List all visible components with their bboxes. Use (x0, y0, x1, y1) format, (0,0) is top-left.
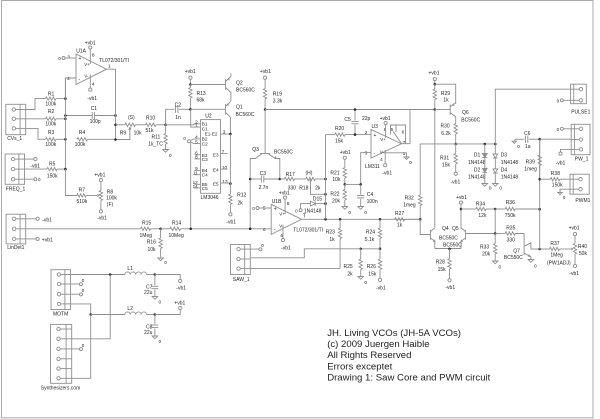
wire U3 pin6 diagonal (393, 132, 401, 144)
node R4-R9 wiper (114, 138, 117, 141)
resistor R26 (379, 249, 381, 259)
connector PULSE1 (571, 84, 587, 104)
svg-text:BC560C: BC560C (236, 88, 255, 94)
wire +vb1 to Q6 emitter (435, 84, 456, 104)
svg-text:-vb1: -vb1 (87, 96, 97, 102)
terminal 0 at FREQ_1 pin3 (25, 178, 34, 180)
svg-text:R1: R1 (48, 91, 55, 97)
wire Q2 base (190, 84, 225, 86)
node C4 top (359, 183, 362, 186)
resistor R10 (146, 123, 157, 126)
ground at R11 (163, 150, 169, 153)
node C1 left (64, 114, 67, 117)
resistor R12 (229, 194, 232, 205)
ground at C8 (152, 336, 158, 339)
svg-text:1k: 1k (443, 98, 449, 104)
node T bus R18 (324, 178, 327, 181)
svg-text:1Meg: 1Meg (550, 252, 563, 258)
ground at R25 (358, 277, 364, 280)
node L1 tap (109, 273, 112, 276)
svg-text:150k: 150k (47, 174, 58, 180)
resistor R39 (539, 139, 541, 155)
svg-text:C3: C3 (202, 157, 208, 162)
wire LinDet1 pin1 to -vb1 (26, 218, 36, 220)
ground at D4 (494, 173, 496, 184)
resistor R27 (395, 218, 405, 221)
power +vb1 at R8 (100, 182, 102, 191)
node R9 left (114, 124, 117, 127)
svg-text:Q1: Q1 (236, 105, 243, 111)
svg-text:V+: V+ (279, 211, 285, 216)
svg-text:750k: 750k (505, 213, 516, 219)
diode D3 1N4148 (494, 144, 496, 154)
power -vb1 at R26 (378, 278, 381, 281)
svg-text:+vb1: +vb1 (185, 69, 196, 75)
svg-text:+vb1: +vb1 (85, 41, 96, 47)
resistor R25 (360, 249, 362, 259)
potentiometer R18 (H) (306, 177, 316, 180)
capacitor C5 (354, 110, 356, 121)
wire R15 to node (151, 228, 161, 230)
resistor R11 (165, 125, 167, 134)
potentiometer R40 50k (560, 248, 571, 250)
svg-text:U1B: U1B (272, 199, 282, 205)
svg-text:C2: C2 (175, 102, 182, 108)
power +vb1 at R29 (433, 77, 436, 80)
svg-text:Drawing 1: Saw Core and PWM ci: Drawing 1: Saw Core and PWM circuit (327, 372, 490, 383)
resistor R37 (540, 248, 550, 250)
node net A C5 (354, 108, 357, 111)
U3 pin1 to ground (383, 153, 407, 157)
connector FREQ_1 (5, 154, 24, 184)
svg-text:R25: R25 (344, 264, 353, 270)
svg-text:1k_TC: 1k_TC (148, 142, 163, 148)
svg-text:6.2k: 6.2k (441, 131, 451, 137)
wire R13 bottom to Q1 base (190, 108, 225, 110)
wire LinDet1 pin2 to R15 (26, 228, 141, 230)
capacitor C2 (166, 109, 175, 125)
wire L2 to C8 node (147, 314, 155, 316)
svg-text:-vb1: -vb1 (42, 217, 52, 223)
wire U1B pin5 (259, 207, 271, 209)
terminal 0 at synth pin3 (72, 348, 80, 350)
wire +vb1 to Q2 base node (189, 79, 191, 84)
node R24 top (379, 218, 382, 221)
svg-text:Q4: Q4 (442, 226, 449, 232)
svg-text:2: 2 (365, 130, 368, 136)
node R23 top (339, 218, 342, 221)
svg-text:50k: 50k (579, 251, 588, 257)
svg-text:SAW_1: SAW_1 (233, 277, 250, 283)
connector SAW_1 (231, 245, 251, 275)
svg-text:R28: R28 (436, 260, 445, 266)
svg-text:-vb1: -vb1 (97, 216, 107, 222)
svg-text:C5: C5 (202, 186, 208, 191)
svg-text:-vb1: -vb1 (281, 246, 291, 252)
wire LinDet1 pin3 to +vb1 (26, 238, 36, 240)
svg-text:1meg: 1meg (524, 166, 537, 172)
svg-text:+vb1: +vb1 (429, 71, 440, 77)
svg-text:R26: R26 (367, 264, 376, 270)
svg-text:R31: R31 (440, 155, 449, 161)
wire R1 to bus (56, 98, 65, 100)
svg-text:1a: 1a (525, 144, 531, 150)
wire pulse out to PULSE1 (495, 89, 570, 144)
svg-text:15k: 15k (442, 162, 451, 168)
terminal 0 at MOTM pin3 (71, 293, 80, 295)
power +vb1 at Q5 collector (459, 201, 462, 204)
svg-text:R29: R29 (441, 91, 450, 97)
op-amp U1A (76, 54, 107, 85)
svg-text:D1: D1 (474, 153, 481, 159)
svg-text:BC550C: BC550C (274, 149, 293, 155)
node bus R5 (64, 168, 67, 171)
svg-text:Q2: Q2 (236, 81, 243, 87)
wire saw level node (361, 248, 380, 250)
svg-text:1N4148: 1N4148 (501, 160, 519, 166)
svg-text:+vb1: +vb1 (380, 116, 391, 122)
power -vb1 at R12 (229, 213, 232, 216)
capacitor C4 (360, 184, 362, 194)
svg-text:D15: D15 (313, 197, 322, 203)
wire R5 to bus (57, 168, 65, 170)
svg-text:R19: R19 (273, 92, 282, 98)
ground at Q7 emitter (528, 260, 534, 263)
node D1 top (484, 143, 487, 146)
U1B V+ to +vb1 (284, 199, 286, 214)
svg-text:-vb1: -vb1 (556, 161, 566, 167)
node emitters R28 (448, 248, 451, 251)
svg-text:100k: 100k (45, 142, 56, 148)
resistor R15 (141, 227, 151, 230)
wire R18 to T bus (315, 178, 325, 180)
terminal 0 at PW_1 pin1 (560, 127, 563, 130)
svg-text:R10: R10 (146, 116, 155, 122)
connector MOTM (51, 270, 71, 310)
wire U2 pin2 B1 from R10 node (166, 124, 201, 125)
potentiometer R9 (S) (125, 123, 135, 126)
svg-text:(PW1ADJ): (PW1ADJ) (547, 260, 571, 266)
resistor R24 (379, 219, 381, 228)
svg-text:R5: R5 (49, 162, 56, 168)
svg-text:0: 0 (563, 195, 566, 200)
node C7 top (154, 273, 157, 276)
node E5 / R12 (229, 182, 232, 185)
connector CVs_1 (6, 104, 26, 134)
diode D2 1N4148 (484, 158, 486, 169)
T bus vertical (325, 135, 327, 220)
wire L2 node to L2 (91, 314, 125, 316)
svg-text:10Meg: 10Meg (169, 233, 185, 239)
svg-text:C5: C5 (344, 117, 351, 123)
terminal 0 at U1B pin5 (256, 207, 259, 210)
wire Q3 left leg to C3 (249, 163, 251, 230)
svg-text:L1: L1 (127, 266, 133, 272)
svg-text:1k: 1k (397, 223, 403, 229)
svg-text:C3: C3 (260, 171, 267, 177)
terminal 0 at MOTM pin2 (71, 283, 80, 285)
svg-text:R3: R3 (48, 130, 55, 136)
node C1 right (114, 114, 117, 117)
resistor R30 (454, 124, 457, 135)
svg-text:R21: R21 (330, 171, 339, 177)
U1B V- to -vb1 (282, 225, 284, 239)
svg-text:100k: 100k (45, 101, 56, 107)
wire PW_1 pin3 to -vb1 (561, 149, 572, 152)
svg-text:4: 4 (380, 157, 383, 163)
node R10-R11-C2-B1 (164, 124, 167, 127)
U3 balance pins 5-6 strap (391, 125, 406, 144)
wire R38 to PWM1 (560, 178, 570, 180)
wire R20 left to T bus (326, 134, 335, 136)
U1A V- pin to -vb1 (89, 75, 91, 89)
svg-text:-vb1: -vb1 (382, 171, 392, 177)
svg-text:(c) 2009 Juergen Haible: (c) 2009 Juergen Haible (327, 339, 429, 350)
wire U1B output T (302, 218, 421, 220)
input bus vertical (64, 78, 66, 169)
svg-text:68k: 68k (197, 98, 206, 104)
svg-text:15k: 15k (368, 272, 377, 278)
svg-text:C4: C4 (202, 173, 208, 178)
connector Synthesizers.com (51, 324, 72, 383)
svg-text:BC550C: BC550C (439, 236, 458, 242)
svg-text:0: 0 (499, 265, 502, 270)
svg-text:R23: R23 (326, 229, 335, 235)
resistor R38 (540, 178, 551, 180)
wire Q3 base vertical (264, 110, 266, 154)
svg-text:D2: D2 (474, 167, 481, 173)
svg-text:1N4148: 1N4148 (468, 160, 486, 166)
svg-text:R40: R40 (578, 244, 587, 250)
wire U3 output pin7 (402, 110, 411, 144)
node R35 left (494, 232, 497, 235)
resistor R19 (264, 79, 266, 88)
wire R14 to U1B pin6 (181, 228, 272, 230)
svg-text:-vb1: -vb1 (569, 271, 579, 277)
U3 V- to -vb1 (384, 150, 386, 164)
svg-text:150k: 150k (552, 182, 563, 188)
wire Q4 base (420, 219, 430, 234)
svg-text:-vb1: -vb1 (376, 286, 386, 292)
svg-text:E4: E4 (213, 168, 219, 173)
svg-text:10k: 10k (148, 247, 157, 253)
svg-text:+: + (374, 133, 377, 139)
wire R10 to R11 node (156, 124, 166, 126)
node R27-R32 (419, 218, 422, 221)
svg-text:+vb1: +vb1 (340, 150, 351, 156)
wire common emitters (435, 248, 461, 250)
svg-text:E3: E3 (213, 152, 219, 157)
svg-text:U1A: U1A (76, 49, 86, 55)
svg-text:0: 0 (348, 210, 351, 215)
resistor R35 (495, 233, 505, 235)
node R13 bottom / C2 right (189, 108, 192, 111)
svg-text:2k: 2k (238, 200, 244, 206)
svg-text:Q3: Q3 (252, 147, 259, 153)
comparator U3 LM311 (371, 130, 402, 159)
svg-text:12k: 12k (478, 213, 487, 219)
node bus-R2 (64, 118, 67, 121)
power -vb1 at R40 (574, 254, 576, 264)
svg-text:TL072/301/TI: TL072/301/TI (293, 227, 323, 233)
wire U2 pin1 C1 to C2 net (191, 109, 201, 127)
resistor R22 (344, 184, 346, 189)
svg-text:51k: 51k (146, 128, 155, 134)
wire R3 to bus (56, 138, 65, 140)
svg-text:3: 3 (67, 55, 70, 61)
svg-text:+: + (79, 56, 82, 62)
svg-text:LM311: LM311 (365, 164, 380, 170)
wire Q5 base vertical (466, 209, 496, 234)
potentiometer R8 (F) (86, 195, 97, 197)
node C5-R20-pin2 (354, 133, 357, 136)
svg-text:C2: C2 (202, 141, 208, 146)
node R21-R22 (344, 183, 347, 186)
svg-text:+vb1: +vb1 (569, 225, 580, 231)
svg-text:CVs_1: CVs_1 (7, 136, 22, 142)
svg-text:1k: 1k (329, 237, 335, 243)
resistor R31 (455, 144, 457, 154)
wire L1 to C7 node (147, 274, 155, 276)
svg-text:R11: R11 (152, 135, 161, 141)
power -vb1 at R28 (448, 279, 451, 282)
node T bus wiper (324, 193, 327, 196)
resistor R33 (494, 234, 496, 244)
svg-text:0: 0 (159, 339, 162, 344)
svg-text:R2: R2 (48, 109, 55, 115)
wire R36 to PW bus (515, 208, 540, 210)
svg-text:1Meg: 1Meg (140, 233, 153, 239)
svg-text:R12: R12 (237, 193, 246, 199)
svg-text:PW_1: PW_1 (575, 156, 589, 162)
svg-text:R18: R18 (299, 185, 308, 191)
ground at C4 (358, 207, 364, 210)
node bus-R3-R4 (64, 138, 67, 141)
svg-text:+vb1: +vb1 (42, 237, 53, 243)
svg-text:Q6: Q6 (462, 110, 469, 116)
node D3 top / pulse (494, 143, 497, 146)
svg-text:+vb1: +vb1 (279, 191, 290, 197)
wire U2 left pin stubs (195, 154, 201, 156)
svg-text:2k: 2k (315, 185, 321, 191)
svg-text:8: 8 (92, 53, 95, 59)
power +vb1 at R21 (343, 156, 346, 159)
svg-text:100p: 100p (90, 119, 101, 125)
svg-text:0: 0 (364, 280, 367, 285)
svg-text:3.3k: 3.3k (273, 98, 283, 104)
resistor R14 (170, 227, 181, 230)
svg-text:V-: V- (84, 74, 89, 79)
node PW bus R36 (538, 208, 541, 211)
svg-text:-vb1: -vb1 (451, 180, 461, 186)
svg-text:MOTM: MOTM (53, 312, 68, 318)
svg-text:BC560C: BC560C (461, 117, 480, 123)
resistor R28 (449, 249, 451, 259)
node summing C3 (249, 228, 252, 231)
svg-text:R7: R7 (79, 187, 86, 193)
node PW bus bottom (538, 248, 541, 251)
svg-text:R32: R32 (405, 195, 414, 201)
wire U1A pin3 (65, 57, 76, 59)
resistor R21 (344, 159, 346, 167)
svg-text:R24: R24 (366, 229, 375, 235)
resistor R5 (47, 167, 57, 170)
wire R4 to U1A output bus (88, 138, 116, 140)
svg-text:R35: R35 (506, 226, 515, 232)
svg-text:All Rights Reserved: All Rights Reserved (327, 350, 411, 361)
IC U2 LM3046 box (201, 120, 221, 194)
svg-text:22u: 22u (144, 290, 153, 296)
wire Q7 collector to R37 (531, 248, 540, 250)
power +vb1 at R13 (189, 76, 192, 79)
wire R2 to bus (56, 118, 65, 120)
svg-text:LM3046: LM3046 (201, 195, 219, 201)
wire U1A pin2 to input bus (65, 78, 76, 99)
diode D4 1N4148 (494, 158, 496, 169)
svg-text:5: 5 (263, 206, 266, 212)
wire R17 to R18 (295, 178, 306, 180)
wire B2-C2 down to summing node (190, 143, 192, 229)
svg-text:R38: R38 (551, 171, 560, 177)
wire C8 node to +vb1 terminal (155, 310, 180, 315)
node C6-R39-PW1 (538, 138, 541, 141)
power +vb1 at R40 (574, 236, 576, 244)
svg-text:BC550C: BC550C (443, 242, 462, 248)
transistor Q1 BC560C (225, 104, 227, 115)
node bus-R1 (64, 97, 67, 100)
svg-text:2k: 2k (347, 272, 353, 278)
resistor R2 (46, 117, 57, 120)
resistor R3 (46, 138, 57, 141)
wire U2 pin3 E1-E2 (221, 133, 231, 135)
svg-text:(S): (S) (128, 115, 135, 121)
wire CVs_1 pin2 to R2 (26, 118, 46, 120)
svg-text:0: 0 (164, 260, 167, 265)
svg-text:R16: R16 (147, 240, 156, 246)
resistor R23 (339, 219, 341, 228)
inductor L2 (125, 312, 147, 315)
transistor Q3 BC550C (260, 153, 270, 155)
svg-text:15k: 15k (335, 139, 344, 145)
svg-text:R22: R22 (330, 192, 339, 198)
capacitor C1 (65, 115, 92, 117)
svg-text:1N4148: 1N4148 (501, 175, 519, 181)
svg-text:R20: R20 (335, 126, 344, 132)
svg-text:PULSE1: PULSE1 (571, 109, 590, 115)
transistor Q6 BC560C (449, 104, 451, 114)
PW bus vertical (539, 139, 541, 249)
wire CVs_1 pin1 to R1 (26, 99, 46, 110)
svg-text:-vb1: -vb1 (226, 219, 236, 225)
svg-text:V+: V+ (84, 62, 90, 67)
node T bus bottom (324, 218, 327, 221)
resistor R32 (419, 144, 421, 195)
svg-text:U3: U3 (372, 124, 379, 130)
power -vb1 at R8 (100, 201, 102, 210)
svg-text:2.7n: 2.7n (259, 185, 269, 191)
resistor R36 (495, 208, 505, 210)
node C3 left (249, 178, 252, 181)
resistor R16 (160, 229, 162, 238)
wire to SAW_1 pin2 (251, 249, 361, 258)
svg-text:C4: C4 (367, 192, 374, 198)
svg-text:0: 0 (169, 153, 172, 158)
svg-text:R15: R15 (142, 220, 151, 226)
svg-text:TL072/301/TI: TL072/301/TI (99, 58, 129, 64)
wire Q2 collector to Q1 emitter (230, 95, 232, 101)
wire U2 emitters vertical (229, 134, 231, 194)
ground at R33 (492, 261, 498, 264)
